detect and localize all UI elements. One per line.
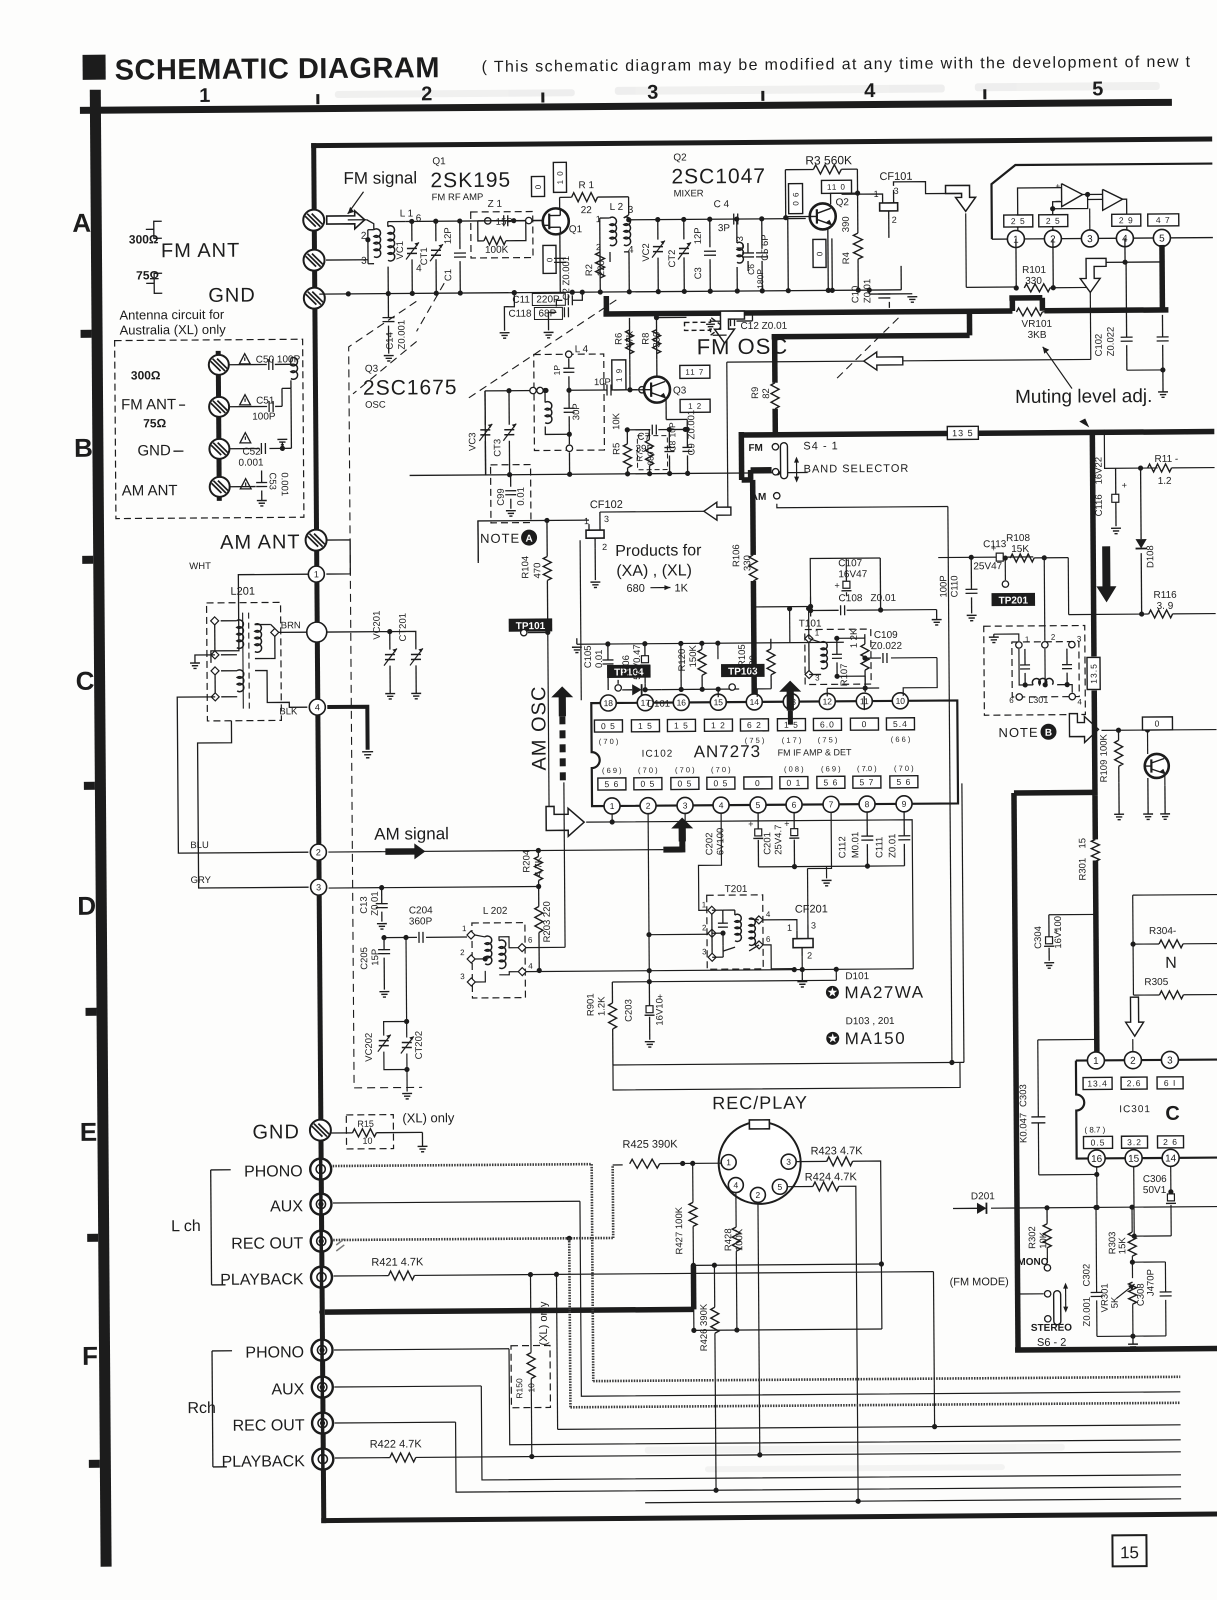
L301 wires (1019, 649, 1072, 693)
svg-text:470: 470 (532, 563, 543, 579)
svg-text:6.0: 6.0 (820, 719, 835, 729)
STEREO (1031, 1323, 1072, 1334)
GRY label (191, 875, 212, 886)
wire 4 thick (327, 707, 373, 758)
wire aux L (333, 1197, 1180, 1398)
aus term4 (209, 477, 231, 497)
terminal GND1 (303, 288, 325, 309)
an7273 paren b (675, 765, 695, 774)
C205 15P (359, 938, 390, 998)
ic301 paren (1084, 1125, 1105, 1134)
wire am signal (328, 847, 663, 855)
svg-text:10K: 10K (611, 412, 622, 430)
wire pin3 (684, 813, 686, 827)
an7273 vboxb 5 6 (598, 778, 626, 790)
R101 330 (1013, 239, 1056, 292)
an7273 paren (745, 736, 765, 745)
svg-text:6: 6 (416, 213, 422, 224)
svg-text:GND: GND (208, 285, 256, 307)
svg-text:Q3: Q3 (365, 364, 379, 375)
svg-text:13.5: 13.5 (1089, 663, 1099, 684)
svg-text:BLK: BLK (279, 706, 298, 717)
T101 pins (805, 628, 820, 682)
terminal AM ANT (305, 530, 327, 551)
wire gry (329, 884, 542, 891)
terminal 3 (311, 879, 327, 895)
VC2 (641, 220, 666, 292)
CF201 (787, 903, 828, 960)
svg-text:NOTE: NOTE (480, 531, 520, 546)
vbox q1 a (531, 176, 544, 196)
svg-text:PHONO: PHONO (244, 1163, 303, 1180)
Q3 transistor (644, 377, 670, 403)
S4 capsule (780, 443, 787, 479)
wire 1266 rail (693, 1264, 881, 1265)
australia note (119, 307, 226, 338)
ic301 vbox 134 (1083, 1077, 1112, 1089)
svg-text:R107: R107 (839, 664, 850, 687)
an7273 vboxb 0 5 (671, 777, 699, 789)
wire r101 right (1053, 286, 1089, 288)
svg-text:1 0: 1 0 (556, 170, 565, 184)
svg-text:C9: C9 (686, 443, 697, 455)
svg-text:R116: R116 (1153, 590, 1177, 601)
wire c306 r303 (1132, 1235, 1171, 1237)
svg-text:MA150: MA150 (845, 1029, 907, 1048)
svg-text:D: D (77, 891, 96, 921)
svg-text:5 6: 5 6 (823, 777, 838, 787)
svg-text:A: A (72, 208, 91, 238)
svg-text:PLAYBACK: PLAYBACK (220, 1271, 304, 1289)
R8 330 (640, 315, 662, 377)
an7273 pin 1 (604, 798, 620, 814)
row tick (84, 782, 95, 790)
svg-text:2: 2 (316, 847, 321, 857)
wire pin4 t201 (698, 813, 722, 910)
wire c12 (751, 313, 753, 321)
svg-text:6 I: 6 I (1164, 1078, 1177, 1088)
wire l202 4 (526, 966, 913, 974)
L2 (596, 202, 634, 256)
TP103 (721, 664, 765, 691)
svg-text:1: 1 (610, 801, 615, 811)
R428 100K (723, 1193, 746, 1333)
svg-text:+: + (834, 580, 839, 590)
svg-text:+: + (1122, 480, 1127, 490)
wire q3 bottom rail (410, 470, 808, 478)
aus GND (137, 442, 183, 459)
svg-text:BLU: BLU (190, 840, 209, 851)
R108 15K (1006, 533, 1068, 562)
din pin1 (721, 1155, 736, 1170)
svg-text:Z0.001: Z0.001 (1082, 1297, 1093, 1327)
R203 220 (535, 886, 554, 973)
VC202 (364, 1021, 407, 1069)
svg-text:(XL) only: (XL) only (402, 1110, 455, 1125)
L3 (735, 219, 747, 291)
svg-text:C102: C102 (1094, 334, 1105, 357)
Q1 tag (569, 224, 583, 235)
R3 560K (783, 153, 858, 220)
C8 10P (664, 422, 677, 474)
vbox 0 rb (1142, 717, 1172, 730)
svg-text:C107: C107 (838, 558, 862, 569)
fm osc arrow (684, 317, 722, 335)
135 box (947, 426, 978, 439)
jack label REC OUT (233, 1417, 305, 1435)
L301 inner box (1012, 642, 1079, 697)
an7273 paren (599, 737, 619, 746)
svg-text:E: E (80, 1117, 98, 1147)
svg-text:AUX: AUX (271, 1381, 304, 1398)
svg-text:R427 100K: R427 100K (674, 1206, 685, 1254)
BRN label (281, 620, 301, 631)
wire bottom rail (319, 287, 901, 296)
thick elbow down (1014, 792, 1099, 1350)
AM signal arrow (385, 843, 425, 859)
svg-text:C 4: C 4 (714, 199, 730, 210)
svg-text:R2: R2 (584, 264, 595, 276)
R204 (521, 850, 544, 887)
R5 10K (611, 412, 631, 474)
ghost strip top (335, 82, 1160, 98)
an7273 paren b (857, 764, 877, 773)
svg-text:2: 2 (596, 242, 601, 252)
svg-text:L301: L301 (1028, 695, 1048, 705)
svg-text:1: 1 (702, 900, 707, 909)
svg-text:22: 22 (581, 205, 593, 216)
svg-text:Muting level adj.: Muting level adj. (1015, 386, 1152, 408)
svg-text:3KB: 3KB (1028, 330, 1047, 341)
aus FM ANT (121, 396, 185, 413)
C202 (704, 813, 763, 867)
C109 (862, 630, 937, 697)
thick r301 down (1095, 860, 1096, 1052)
C10 (850, 220, 890, 303)
svg-text:( 8.7 ): ( 8.7 ) (1084, 1125, 1105, 1134)
svg-text:0: 0 (755, 778, 761, 788)
C52 label (238, 447, 264, 469)
svg-text:R422 4.7K: R422 4.7K (370, 1438, 423, 1450)
svg-text:3: 3 (683, 800, 688, 810)
svg-text:C7: C7 (637, 432, 650, 443)
wire z1 out (526, 217, 543, 224)
300ohm label (129, 232, 159, 246)
svg-text:VC201: VC201 (372, 611, 383, 640)
svg-text:VC2: VC2 (641, 243, 652, 262)
svg-text:TP101: TP101 (516, 621, 546, 632)
svg-text:( 7.0 ): ( 7.0 ) (857, 764, 877, 773)
svg-text:REC/PLAY: REC/PLAY (712, 1093, 808, 1114)
terminal FM300 (303, 210, 325, 231)
ic301 vbox 32 (1121, 1136, 1147, 1148)
svg-text:2: 2 (892, 215, 897, 225)
svg-text:(FM MODE): (FM MODE) (950, 1276, 1009, 1288)
R107 12K (839, 628, 869, 686)
ic101 outline (991, 164, 1213, 240)
ic301 pin 16 (1088, 1150, 1105, 1167)
VC1 (395, 221, 420, 293)
svg-text:R301: R301 (1077, 858, 1088, 881)
rca jack (310, 1159, 331, 1180)
svg-text:R425 390K: R425 390K (622, 1138, 678, 1150)
L202 box (472, 906, 526, 998)
svg-text:Z 1: Z 1 (488, 199, 503, 210)
svg-text:AM ANT: AM ANT (122, 482, 178, 499)
MONO (1017, 1257, 1050, 1271)
wire aux R (334, 1381, 1181, 1481)
svg-text:2: 2 (1130, 1056, 1136, 1067)
L1 coils (348, 219, 407, 293)
wire q3 left (484, 391, 487, 475)
svg-text:12: 12 (823, 696, 833, 706)
vbox 117 (680, 365, 710, 378)
an7273 pin 10 (892, 693, 908, 709)
L4 box (534, 344, 605, 451)
C302 (1081, 1205, 1103, 1337)
svg-text:10: 10 (362, 1136, 372, 1146)
R305 (1133, 977, 1217, 1000)
Z1 box (471, 199, 533, 258)
q3 emitter (666, 398, 687, 429)
svg-text:( 0 8 ): ( 0 8 ) (784, 765, 804, 774)
svg-text:680: 680 (748, 655, 759, 671)
C303 (1018, 1037, 1101, 1175)
terminal BRN (307, 622, 327, 642)
ic101 pin 4 (1116, 230, 1133, 247)
svg-text:C203: C203 (623, 999, 634, 1022)
svg-text:16: 16 (1091, 1154, 1103, 1165)
L201 right coil (255, 624, 279, 659)
Q right (1143, 730, 1171, 820)
R422 (335, 1433, 1181, 1463)
svg-text:2: 2 (1051, 633, 1056, 642)
CT1 (419, 221, 444, 293)
row letter D (77, 891, 96, 921)
svg-text:Z0.022: Z0.022 (1106, 327, 1117, 357)
D103 MA150 (826, 1016, 906, 1049)
svg-text:2 9: 2 9 (1119, 215, 1134, 225)
svg-text:14: 14 (1165, 1153, 1177, 1164)
cap C53 (230, 470, 268, 506)
svg-text:0.5: 0.5 (1091, 1137, 1106, 1147)
svg-text:C53: C53 (267, 472, 278, 490)
CT201 label (398, 613, 409, 642)
svg-text:180P: 180P (755, 269, 765, 289)
svg-text:C204: C204 (409, 905, 433, 916)
svg-text:R304-: R304- (1149, 926, 1176, 937)
gang dash 5 (836, 318, 898, 378)
svg-text:15P: 15P (370, 949, 381, 966)
S4 AM contact (751, 492, 780, 503)
svg-text:VC202: VC202 (364, 1033, 375, 1062)
wire note b out (1101, 727, 1216, 733)
aus 75ohm (143, 416, 166, 430)
svg-text:16V10: 16V10 (654, 998, 665, 1026)
svg-text:M0.01: M0.01 (850, 832, 861, 858)
svg-text:330: 330 (742, 555, 753, 571)
R6 47K (613, 318, 636, 393)
svg-text:FM signal: FM signal (343, 168, 417, 188)
svg-text:Q3: Q3 (673, 385, 687, 396)
D108 (1135, 468, 1157, 613)
R4 390 (841, 191, 863, 293)
svg-text:REC OUT: REC OUT (233, 1417, 305, 1435)
an7273 paren b (821, 764, 841, 773)
rca jack (311, 1340, 332, 1361)
row letter F (82, 1341, 98, 1371)
wire phono R (334, 1344, 1181, 1446)
R105 680 (737, 639, 775, 697)
S6 arrows (1063, 1283, 1068, 1313)
wire c113 rail (938, 554, 1033, 560)
svg-text:75Ω: 75Ω (143, 416, 166, 430)
svg-text:D101: D101 (845, 971, 869, 982)
svg-text:2: 2 (602, 542, 607, 552)
C102b cap (1156, 315, 1169, 397)
svg-text:4: 4 (1077, 698, 1082, 707)
svg-text:D103 , 201: D103 , 201 (846, 1016, 895, 1027)
AM OSC label (528, 686, 551, 771)
left margin bar (90, 90, 112, 1567)
svg-text:16V47: 16V47 (838, 569, 867, 580)
an7273 pin 2 (640, 798, 656, 814)
svg-text:A: A (525, 534, 532, 545)
C110 (938, 557, 977, 621)
title note (482, 54, 1192, 76)
svg-text:( This schematic diagram may b: ( This schematic diagram may be modified… (482, 54, 1192, 76)
C11 caps (499, 290, 585, 339)
svg-text:12P: 12P (693, 227, 704, 244)
products label (615, 542, 702, 595)
products box lines (478, 520, 581, 701)
VR101 label (1021, 319, 1052, 341)
wire BLK (255, 670, 307, 707)
block arrow fm in (327, 211, 365, 229)
svg-text:0 5: 0 5 (677, 778, 692, 788)
svg-text:B: B (74, 433, 93, 463)
CT202 (401, 1021, 426, 1099)
wire c20x rail (758, 866, 831, 886)
svg-text:1: 1 (1093, 1056, 1099, 1067)
svg-text:R104: R104 (520, 556, 531, 579)
VC201 label (372, 611, 383, 640)
aus term2 (208, 397, 230, 417)
svg-text:D101: D101 (647, 699, 670, 710)
FM signal arrow (348, 192, 364, 214)
wire c204 down (403, 935, 409, 1024)
svg-text:Q2: Q2 (836, 197, 850, 208)
svg-text:C13: C13 (359, 896, 370, 914)
T201 box (707, 884, 764, 969)
svg-text:R7: R7 (634, 451, 644, 462)
svg-text:5: 5 (777, 1182, 782, 1192)
cap C52 gnd (229, 388, 291, 454)
harrow note b (1069, 713, 1098, 742)
svg-text:Z0.01: Z0.01 (862, 279, 873, 303)
svg-text:L 202: L 202 (483, 906, 508, 917)
opamp wires (1018, 187, 1127, 231)
rca jack (312, 1449, 333, 1470)
ic301 pin 1 (1087, 1052, 1104, 1069)
svg-text:3: 3 (1077, 635, 1082, 644)
wire L201 down2 (197, 720, 308, 888)
main border (311, 137, 1217, 1524)
AM signal label (374, 824, 449, 844)
svg-text:50V1: 50V1 (1143, 1185, 1167, 1196)
svg-text:3: 3 (460, 972, 465, 981)
svg-text:S4 - 1: S4 - 1 (803, 440, 838, 452)
svg-text:+: + (657, 992, 662, 1002)
svg-text:15: 15 (1077, 838, 1088, 849)
cap C51 (229, 388, 291, 412)
warn C51 (240, 394, 275, 406)
din pin3 (781, 1154, 796, 1169)
svg-text:AM OSC: AM OSC (528, 686, 551, 771)
terminal 4 (309, 699, 325, 715)
CF102 (584, 499, 623, 552)
C306 (1143, 1166, 1177, 1236)
svg-text:L 4: L 4 (575, 344, 589, 355)
thick switch stub (751, 469, 779, 480)
svg-text:7: 7 (829, 799, 834, 809)
svg-text:1 5: 1 5 (638, 721, 653, 731)
ruler number 3 (647, 82, 658, 104)
svg-text:R424 4.7K: R424 4.7K (805, 1171, 858, 1183)
wire 1331 rail (691, 1326, 882, 1333)
svg-text:0 5: 0 5 (640, 779, 655, 789)
an7273 paren b (638, 766, 658, 775)
thick stub c10 (604, 296, 610, 314)
row letter B (74, 433, 93, 463)
svg-text:R426 390K: R426 390K (699, 1303, 710, 1351)
wire q3 top (629, 317, 687, 389)
hollow arrow fm osc down (714, 311, 744, 343)
C11 C118 (508, 293, 565, 319)
an7273 vboxb 5 6 (890, 776, 918, 788)
wire recout L branch (569, 1234, 1180, 1407)
L4 coil (545, 390, 572, 437)
L301 caps (1020, 649, 1072, 688)
svg-text:C1: C1 (443, 269, 454, 281)
R1 22 (559, 180, 628, 217)
C106 (621, 644, 650, 693)
warn C52 (240, 433, 251, 443)
AN7273 label (694, 742, 762, 761)
C9 (682, 410, 697, 474)
svg-text:0: 0 (534, 184, 543, 190)
svg-text:D108: D108 (1145, 545, 1156, 568)
svg-text:8: 8 (865, 799, 870, 809)
IC301 body (1076, 1060, 1217, 1159)
svg-text:C106: C106 (621, 655, 632, 678)
svg-text:( 1 7 ): ( 1 7 ) (782, 736, 802, 745)
svg-text:CF102: CF102 (590, 499, 623, 511)
C204 360P (381, 905, 467, 943)
R116 (1148, 590, 1215, 618)
svg-text:C303: C303 (1018, 1084, 1029, 1107)
svg-text:C205: C205 (359, 947, 370, 970)
IC301 C (1165, 1103, 1180, 1125)
svg-text:CT1: CT1 (419, 247, 430, 265)
gang dash 1 (348, 301, 418, 541)
svg-text:F: F (82, 1341, 98, 1371)
ruler tick (983, 89, 986, 99)
FM ANT label (161, 240, 241, 263)
svg-text:TP201: TP201 (999, 595, 1029, 606)
ic301 vbox 05 (1083, 1136, 1112, 1148)
C304 (1033, 912, 1099, 968)
